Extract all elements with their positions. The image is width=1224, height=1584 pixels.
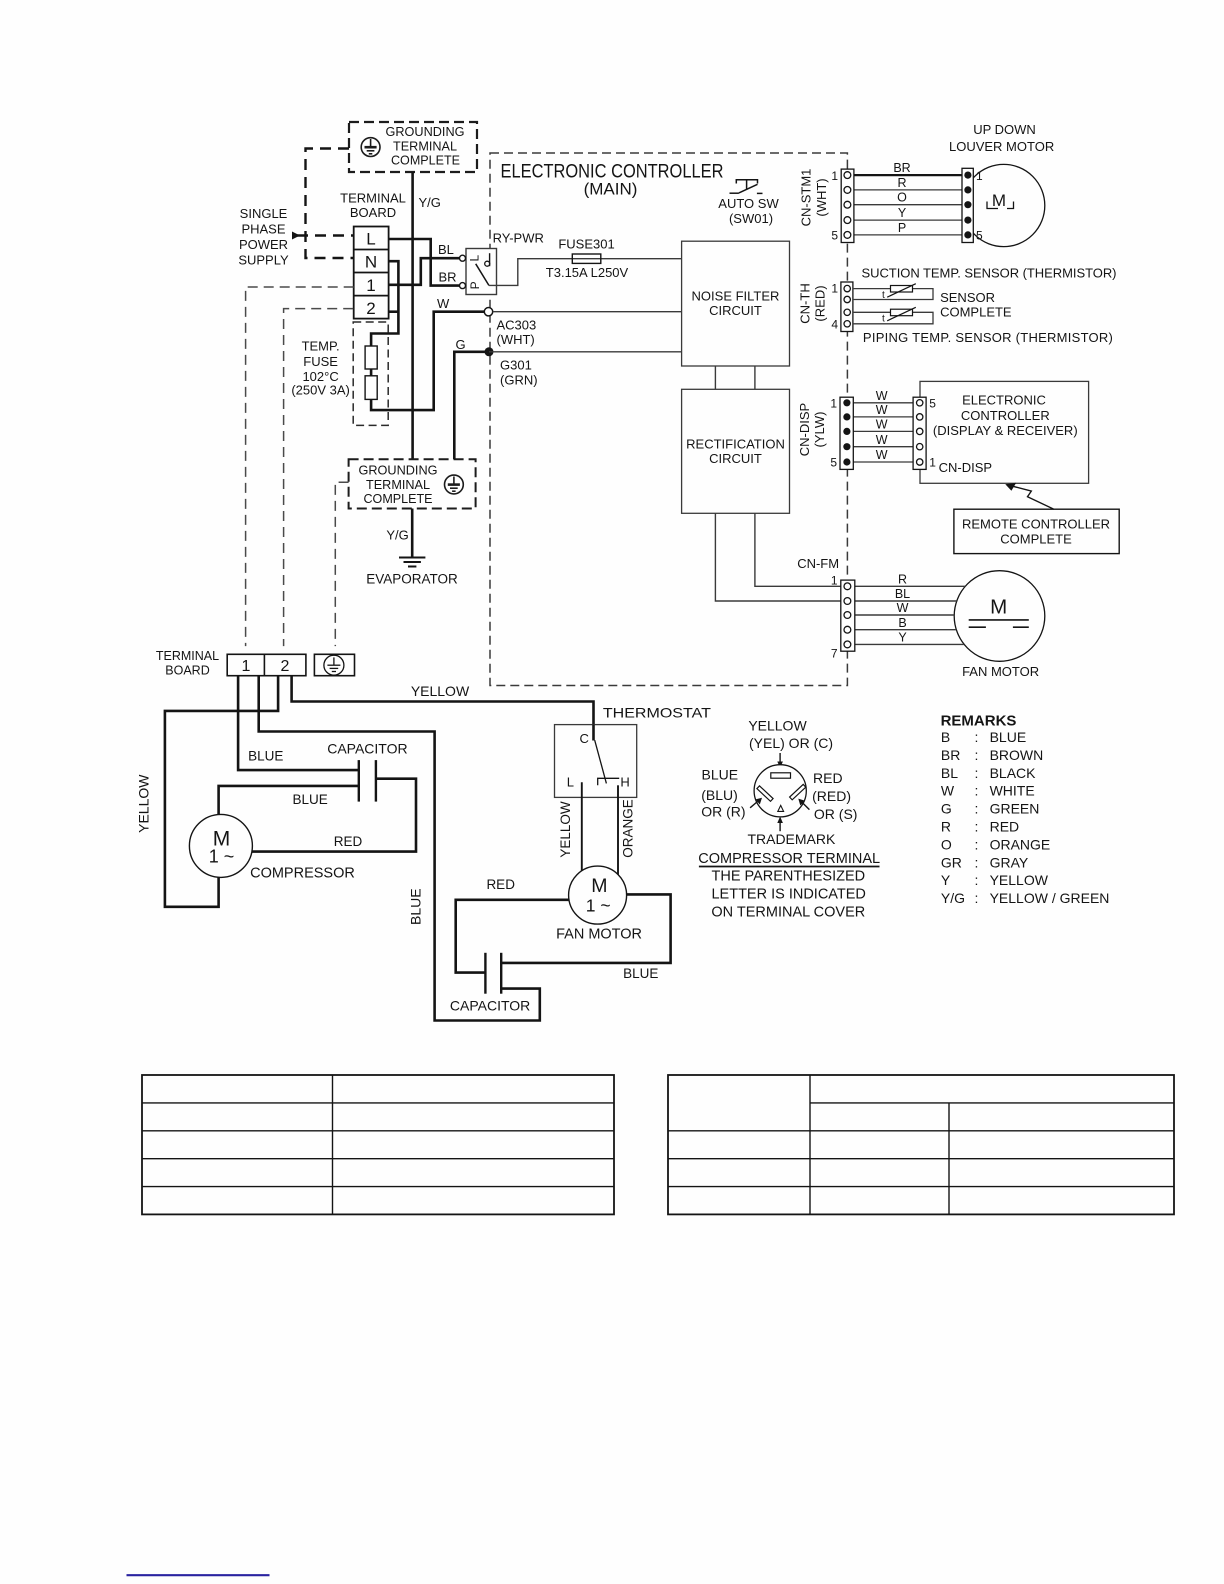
connector CN-DISP (main side) bbox=[797, 396, 853, 469]
svg-text:L: L bbox=[366, 230, 375, 249]
svg-text:BLUE: BLUE bbox=[293, 792, 328, 807]
svg-text:BLACK: BLACK bbox=[990, 765, 1037, 781]
svg-text:5: 5 bbox=[831, 229, 838, 243]
wires rectification to CN-FM bbox=[755, 513, 841, 586]
lightning arrow to display box bbox=[1010, 486, 1054, 510]
svg-text:REMARKS: REMARKS bbox=[941, 713, 1017, 730]
svg-text:FAN MOTOR: FAN MOTOR bbox=[962, 664, 1039, 679]
earth symbol in second grounding box bbox=[445, 475, 464, 494]
svg-text:5: 5 bbox=[830, 456, 837, 470]
svg-text:YELLOW: YELLOW bbox=[136, 774, 152, 833]
arrow to S terminal bbox=[802, 803, 809, 810]
svg-text:BL: BL bbox=[941, 765, 958, 781]
svg-text:L: L bbox=[468, 255, 482, 262]
svg-text:CN-STM1: CN-STM1 bbox=[799, 169, 814, 227]
wire RED fan motor to capacitor bbox=[456, 900, 569, 973]
svg-text:(DISPLAY & RECEIVER): (DISPLAY & RECEIVER) bbox=[933, 423, 1078, 438]
remote controller complete box bbox=[954, 509, 1119, 553]
fan motor circle (bottom) bbox=[569, 866, 627, 924]
svg-text:POWER: POWER bbox=[239, 237, 288, 252]
thermostat blade bbox=[595, 740, 607, 783]
svg-text:SUPPLY: SUPPLY bbox=[238, 253, 289, 268]
svg-text:(GRN): (GRN) bbox=[500, 373, 538, 388]
svg-text:R: R bbox=[941, 819, 951, 835]
svg-text:BL: BL bbox=[895, 587, 910, 601]
svg-text:Y: Y bbox=[898, 631, 907, 645]
svg-text:THE PARENTHESIZED: THE PARENTHESIZED bbox=[711, 869, 865, 885]
thermistor symbol 2 bbox=[891, 309, 913, 316]
svg-text:(SW01): (SW01) bbox=[729, 211, 773, 226]
svg-text::: : bbox=[975, 801, 979, 817]
wire G down to second grounding box bbox=[454, 352, 486, 460]
svg-text:5: 5 bbox=[929, 396, 936, 410]
wires CN-DISP with W labels bbox=[853, 403, 913, 462]
svg-text:RY-PWR: RY-PWR bbox=[493, 231, 544, 246]
connector CN-FM bbox=[831, 574, 855, 661]
svg-text:W: W bbox=[876, 403, 888, 417]
svg-text:(MAIN): (MAIN) bbox=[584, 180, 638, 199]
wire Y/G to evaporator earth bbox=[411, 509, 414, 558]
svg-text:PHASE: PHASE bbox=[241, 222, 285, 237]
svg-text::: : bbox=[975, 729, 979, 745]
lower ground terminal cell bbox=[314, 654, 354, 675]
svg-text:1: 1 bbox=[830, 396, 837, 410]
table right bbox=[668, 1075, 1174, 1214]
svg-text:FAN MOTOR: FAN MOTOR bbox=[556, 927, 642, 943]
fuse F1 bbox=[365, 346, 377, 369]
wires CN-FM to fan motor bbox=[855, 585, 966, 587]
svg-text:BL: BL bbox=[438, 242, 454, 257]
svg-text:TRADEMARK: TRADEMARK bbox=[747, 831, 836, 847]
connector louver motor side bbox=[962, 168, 983, 242]
svg-text:W: W bbox=[876, 389, 888, 403]
svg-text:N: N bbox=[365, 253, 377, 272]
svg-text:TEMP.: TEMP. bbox=[302, 339, 340, 354]
svg-text::: : bbox=[975, 819, 979, 835]
svg-text:2: 2 bbox=[366, 299, 375, 318]
wires CN-STM1 to louver motor bbox=[854, 174, 962, 176]
thermistor loop 1 (suction) bbox=[853, 289, 933, 300]
thermistor symbol 1 bbox=[891, 286, 913, 293]
svg-text:1 ~: 1 ~ bbox=[209, 847, 235, 867]
svg-text:YELLOW: YELLOW bbox=[748, 717, 807, 733]
svg-text:FUSE301: FUSE301 bbox=[558, 237, 614, 252]
svg-text:O: O bbox=[897, 191, 907, 205]
wire YELLOW left to compressor bbox=[165, 676, 278, 907]
svg-text:(WHT): (WHT) bbox=[497, 332, 535, 347]
arrow down to terminal circle bbox=[779, 753, 781, 763]
svg-text:COMPRESSOR TERMINAL: COMPRESSOR TERMINAL bbox=[698, 851, 880, 867]
earth symbol in top grounding box bbox=[361, 138, 380, 157]
svg-text:Y: Y bbox=[941, 872, 951, 888]
wire RED compressor to capacitor right plate bbox=[252, 779, 416, 852]
svg-text:TERMINAL: TERMINAL bbox=[340, 191, 406, 206]
noise filter circuit box bbox=[682, 241, 790, 366]
svg-text:TERMINAL: TERMINAL bbox=[393, 140, 457, 154]
svg-text:GROUNDING: GROUNDING bbox=[359, 463, 438, 477]
fuse F2 bbox=[365, 376, 377, 400]
svg-text:RED: RED bbox=[813, 770, 843, 786]
svg-text:EVAPORATOR: EVAPORATOR bbox=[366, 572, 458, 587]
svg-text:WHITE: WHITE bbox=[990, 783, 1035, 799]
svg-text:R: R bbox=[898, 573, 907, 587]
svg-text:G: G bbox=[941, 801, 952, 817]
svg-text:LOUVER MOTOR: LOUVER MOTOR bbox=[949, 139, 1054, 154]
svg-text:(YLW): (YLW) bbox=[812, 412, 827, 448]
svg-text:YELLOW: YELLOW bbox=[990, 872, 1049, 888]
svg-text:COMPLETE: COMPLETE bbox=[1000, 531, 1072, 546]
svg-text:FUSE: FUSE bbox=[303, 354, 338, 369]
svg-text:GREEN: GREEN bbox=[990, 801, 1040, 817]
svg-text:CIRCUIT: CIRCUIT bbox=[709, 303, 762, 318]
svg-text:GRAY: GRAY bbox=[990, 854, 1029, 870]
svg-text:4: 4 bbox=[831, 318, 838, 332]
rectification circuit box bbox=[682, 389, 790, 513]
svg-text:(WHT): (WHT) bbox=[814, 178, 829, 216]
svg-text:CAPACITOR: CAPACITOR bbox=[327, 741, 407, 757]
capacitor C1 (compressor) bbox=[359, 760, 376, 802]
svg-text:CN-DISP: CN-DISP bbox=[797, 403, 812, 456]
ground symbol evaporator bbox=[399, 558, 425, 567]
svg-text:W: W bbox=[437, 296, 450, 311]
wire terminal1 to relay BL pin bbox=[389, 258, 460, 285]
wire terminal2 stub bbox=[389, 310, 399, 313]
arrow up to trademark bbox=[779, 822, 781, 831]
svg-text:P: P bbox=[468, 281, 482, 289]
svg-text:LETTER IS INDICATED: LETTER IS INDICATED bbox=[711, 887, 865, 903]
svg-text:ON TERMINAL COVER: ON TERMINAL COVER bbox=[711, 905, 865, 921]
footer blue line bbox=[127, 1574, 270, 1576]
switch AUTO SW (SW01) symbol bbox=[730, 180, 763, 194]
svg-text:BLUE: BLUE bbox=[990, 729, 1027, 745]
wire N down to temp fuse bbox=[371, 261, 484, 410]
grounding terminal complete (top) box bbox=[349, 122, 477, 172]
svg-text:Y/G: Y/G bbox=[386, 528, 408, 543]
svg-text:M: M bbox=[992, 191, 1006, 210]
wire Y/G vertical from top grounding box bbox=[411, 172, 414, 459]
svg-text:1: 1 bbox=[831, 282, 838, 296]
svg-text:1: 1 bbox=[929, 456, 936, 470]
svg-text:REMOTE CONTROLLER: REMOTE CONTROLLER bbox=[962, 517, 1110, 532]
svg-text:ORANGE: ORANGE bbox=[990, 836, 1051, 852]
svg-text:B: B bbox=[898, 616, 906, 630]
svg-text:TERMINAL: TERMINAL bbox=[156, 649, 219, 663]
fan motor circle (top) bbox=[954, 571, 1045, 662]
compressor motor circle bbox=[189, 814, 252, 877]
svg-text:UP DOWN: UP DOWN bbox=[973, 122, 1036, 137]
svg-text:L: L bbox=[567, 775, 574, 790]
svg-text:BR: BR bbox=[893, 161, 910, 175]
svg-text:COMPLETE: COMPLETE bbox=[940, 304, 1012, 319]
wire BLUE compressor to capacitor bbox=[219, 786, 359, 816]
terminal C (top) bbox=[771, 773, 791, 778]
svg-text:OR (R): OR (R) bbox=[701, 803, 745, 819]
svg-text::: : bbox=[975, 872, 979, 888]
svg-text:GR: GR bbox=[941, 854, 962, 870]
svg-text:CN-FM: CN-FM bbox=[797, 556, 839, 571]
svg-text:7: 7 bbox=[831, 647, 838, 661]
connector CN-TH bbox=[798, 282, 853, 332]
svg-text::: : bbox=[975, 836, 979, 852]
fuse FUSE301 bbox=[572, 254, 601, 263]
svg-text::: : bbox=[975, 783, 979, 799]
svg-text:SUCTION TEMP. SENSOR (THERMIST: SUCTION TEMP. SENSOR (THERMISTOR) bbox=[862, 265, 1117, 280]
electronic controller main dashed box bbox=[490, 153, 847, 686]
wire BLUE terminal1 to top capacitor bbox=[238, 676, 359, 770]
node G301 bbox=[485, 347, 494, 356]
temp fuse dashed box bbox=[353, 322, 388, 425]
svg-text:R: R bbox=[897, 176, 906, 190]
svg-text:BOARD: BOARD bbox=[350, 205, 396, 220]
svg-text:H: H bbox=[620, 775, 629, 790]
thermistor loop 2 (piping) bbox=[853, 312, 933, 324]
connector CN-DISP (display side) bbox=[913, 396, 992, 475]
svg-text:M: M bbox=[591, 875, 607, 897]
wire ORANGE thermostat H to fan motor bbox=[617, 785, 619, 875]
wire YELLOW to thermostat bbox=[292, 676, 594, 741]
svg-text:T3.15A L250V: T3.15A L250V bbox=[546, 265, 629, 280]
svg-text:YELLOW: YELLOW bbox=[411, 683, 470, 699]
svg-text::: : bbox=[975, 765, 979, 781]
trademark triangle bbox=[778, 805, 784, 811]
svg-text:BOARD: BOARD bbox=[165, 664, 209, 678]
svg-text:1: 1 bbox=[831, 574, 838, 588]
svg-text:G301: G301 bbox=[500, 358, 532, 373]
svg-text:AC303: AC303 bbox=[497, 318, 537, 333]
svg-text::: : bbox=[975, 890, 979, 906]
svg-text:M: M bbox=[990, 596, 1007, 619]
dashed connection power supply to L and N and grounding bbox=[297, 149, 354, 259]
terminal S (right diagonal) bbox=[790, 784, 806, 799]
grounding terminal complete (second) box bbox=[349, 459, 476, 508]
node AC303 bbox=[484, 308, 492, 316]
svg-text:W: W bbox=[876, 448, 888, 462]
svg-text:2: 2 bbox=[280, 658, 289, 675]
svg-text:(250V 3A): (250V 3A) bbox=[291, 383, 350, 398]
svg-text:5: 5 bbox=[976, 229, 983, 243]
svg-text:GROUNDING: GROUNDING bbox=[386, 125, 465, 139]
dashed drop lines to lower terminal board bbox=[246, 287, 354, 646]
terminal board (L N 1 2) bbox=[354, 227, 389, 319]
svg-text:Y/G: Y/G bbox=[941, 890, 965, 906]
wire relay to fuse bbox=[489, 259, 682, 286]
svg-text:B: B bbox=[941, 729, 950, 745]
svg-text:G: G bbox=[456, 337, 466, 352]
svg-text:t: t bbox=[882, 290, 885, 301]
svg-text:W: W bbox=[876, 418, 888, 432]
svg-text:(BLU): (BLU) bbox=[701, 787, 738, 803]
wire L to relay BR pin bbox=[389, 239, 460, 286]
thermostat H bracket bbox=[598, 778, 620, 785]
svg-text:Y/G: Y/G bbox=[419, 195, 441, 210]
svg-text::: : bbox=[975, 854, 979, 870]
REMARKS legend bbox=[941, 713, 1110, 907]
thermostat C terminal wire bbox=[592, 725, 595, 741]
svg-text:(YEL) OR (C): (YEL) OR (C) bbox=[749, 735, 833, 751]
relay RY-PWR bbox=[460, 231, 544, 295]
svg-text:C: C bbox=[580, 731, 589, 746]
svg-text:BR: BR bbox=[941, 747, 960, 763]
svg-text:BLUE: BLUE bbox=[623, 966, 658, 981]
svg-text:TERMINAL: TERMINAL bbox=[366, 478, 430, 492]
svg-text:OR (S): OR (S) bbox=[814, 806, 858, 822]
svg-text:YELLOW / GREEN: YELLOW / GREEN bbox=[990, 890, 1110, 906]
svg-text:RED: RED bbox=[990, 819, 1020, 835]
lower terminal board (1 2) bbox=[227, 654, 306, 675]
svg-text:Y: Y bbox=[898, 206, 907, 220]
arrow from power supply bbox=[292, 232, 300, 240]
svg-text:RED: RED bbox=[486, 877, 515, 892]
svg-text:(RED): (RED) bbox=[812, 285, 827, 321]
svg-text:THERMOSTAT: THERMOSTAT bbox=[603, 705, 711, 721]
svg-text:CONTROLLER: CONTROLLER bbox=[961, 408, 1050, 423]
connector CN-STM1 bbox=[799, 169, 854, 243]
svg-text:1: 1 bbox=[831, 169, 838, 183]
svg-text:O: O bbox=[941, 836, 952, 852]
svg-text:BLUE: BLUE bbox=[407, 888, 423, 925]
svg-text:SINGLE: SINGLE bbox=[240, 206, 288, 221]
svg-text:AUTO SW: AUTO SW bbox=[718, 196, 779, 211]
thermostat box bbox=[555, 725, 637, 798]
svg-text:RECTIFICATION: RECTIFICATION bbox=[686, 436, 785, 451]
svg-text:BR: BR bbox=[439, 270, 457, 285]
svg-text:COMPLETE: COMPLETE bbox=[364, 492, 433, 506]
svg-text:COMPRESSOR: COMPRESSOR bbox=[250, 866, 355, 882]
svg-text:ELECTRONIC: ELECTRONIC bbox=[962, 392, 1046, 407]
compressor terminal circle bbox=[754, 765, 806, 817]
capacitor C2 (fan) bbox=[485, 953, 501, 994]
svg-text::: : bbox=[975, 747, 979, 763]
svg-text:BLUE: BLUE bbox=[248, 749, 283, 764]
svg-text:(RED): (RED) bbox=[812, 788, 851, 804]
svg-text:1 ~: 1 ~ bbox=[586, 896, 611, 916]
svg-text:YELLOW: YELLOW bbox=[558, 801, 573, 858]
table left bbox=[142, 1075, 614, 1214]
svg-text:1: 1 bbox=[242, 658, 251, 675]
louver motor circle bbox=[963, 164, 1045, 246]
svg-text:CN-TH: CN-TH bbox=[798, 283, 813, 323]
wire YELLOW thermostat L to fan motor bbox=[581, 782, 583, 871]
svg-text:W: W bbox=[941, 783, 955, 799]
svg-text:CIRCUIT: CIRCUIT bbox=[709, 451, 762, 466]
svg-text:CN-DISP: CN-DISP bbox=[939, 460, 992, 475]
svg-text:P: P bbox=[898, 221, 906, 235]
svg-text:CAPACITOR: CAPACITOR bbox=[450, 998, 530, 1014]
svg-text:W: W bbox=[876, 433, 888, 447]
svg-text:SENSOR: SENSOR bbox=[940, 290, 995, 305]
terminal R (left diagonal) bbox=[757, 786, 773, 801]
svg-text:PIPING TEMP. SENSOR (THERMISTO: PIPING TEMP. SENSOR (THERMISTOR) bbox=[863, 330, 1113, 345]
svg-text:ORANGE: ORANGE bbox=[621, 799, 636, 858]
wire BLUE fan motor to capacitor bbox=[501, 894, 670, 963]
svg-text:NOISE FILTER: NOISE FILTER bbox=[692, 289, 780, 304]
display controller box bbox=[920, 381, 1089, 483]
svg-text:1: 1 bbox=[976, 169, 983, 183]
svg-text:COMPLETE: COMPLETE bbox=[391, 154, 460, 168]
arrow to R terminal bbox=[750, 802, 757, 808]
svg-text:RED: RED bbox=[334, 834, 363, 849]
wires noise filter to rectification bbox=[714, 366, 716, 389]
svg-text:BLUE: BLUE bbox=[702, 767, 739, 783]
svg-text:W: W bbox=[897, 601, 909, 615]
svg-text:BROWN: BROWN bbox=[990, 747, 1044, 763]
svg-text:1: 1 bbox=[366, 276, 375, 295]
svg-text:t: t bbox=[882, 314, 885, 325]
wire BLUE long to bottom capacitor bbox=[259, 676, 540, 1021]
